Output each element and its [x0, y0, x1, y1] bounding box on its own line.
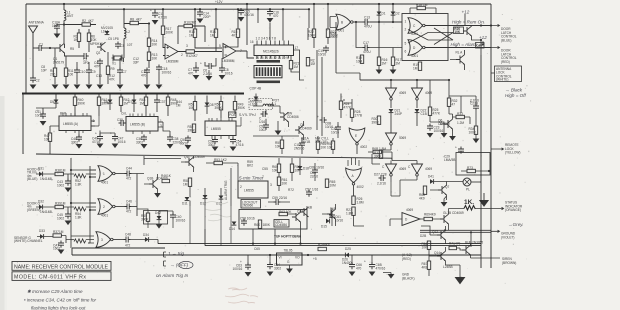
transistor Q11: [185, 157, 194, 167]
svg-text:47: 47: [452, 102, 456, 106]
wire C16 top: [269, 9, 271, 11]
svg-text:Q2: Q2: [96, 51, 100, 55]
wire exit siren: [479, 257, 500, 259]
svg-text:4001: 4001: [411, 54, 418, 58]
capacitor C17A: [144, 68, 150, 75]
transistor Q17: [327, 209, 336, 219]
wire Q7: [430, 182, 447, 201]
svg-text:470: 470: [455, 242, 461, 246]
wire R27 down: [354, 215, 365, 226]
diode D41: [430, 179, 434, 184]
resistor R14A: [147, 38, 150, 46]
svg-text:3302: 3302: [136, 140, 143, 144]
svg-text:6: 6: [405, 50, 407, 54]
extra wire alarm trig riser: [190, 206, 231, 246]
svg-text:C10: C10: [80, 70, 86, 74]
wire C63: [247, 255, 249, 265]
svg-text:1M: 1M: [176, 103, 181, 107]
wire G3 out to pair: [131, 240, 158, 244]
resistor R61: [277, 177, 280, 185]
wire gate E output: [356, 145, 358, 154]
dip switch SW1 body: [254, 66, 282, 78]
svg-text:3: 3: [101, 238, 103, 242]
wire box risers to pair: [205, 229, 301, 246]
capacitor C28: [379, 175, 386, 181]
inductor L3 horizontal: [263, 104, 273, 106]
svg-text:390K: 390K: [215, 106, 223, 110]
wire left border middle section: [22, 94, 24, 155]
svg-text:C5: C5: [121, 44, 125, 48]
ground under C16: [267, 18, 274, 23]
svg-text:C1: C1: [39, 43, 43, 47]
svg-text:1M: 1M: [311, 62, 316, 66]
resistor R38: [55, 172, 63, 175]
resistor R22: [312, 29, 315, 37]
wire U8C: [391, 158, 417, 182]
svg-text:S-V?L 7PnJ: S-V?L 7PnJ: [239, 113, 256, 117]
wire Q17: [322, 204, 336, 226]
wire C64: [269, 255, 271, 265]
svg-text:R18: R18: [416, 3, 422, 7]
svg-text:C13: C13: [364, 16, 370, 20]
wire G1 output: [115, 173, 125, 175]
node y80 a: [390, 79, 392, 81]
svg-text:477K: 477K: [433, 111, 441, 115]
node reg out: [307, 254, 309, 256]
svg-text:D31: D31: [38, 167, 44, 171]
svg-text:472: 472: [125, 244, 131, 248]
wire C41: [36, 108, 56, 114]
diode D11: [185, 197, 190, 201]
resistor R17: [161, 26, 164, 34]
svg-text:D2: D2: [396, 12, 400, 16]
op-amp U1A: [165, 44, 178, 59]
wire R39 to gate2: [63, 207, 96, 214]
node x309 top: [308, 8, 310, 10]
resistor R15: [236, 29, 239, 37]
svg-text:X1: X1: [112, 62, 116, 66]
node y80 b: [416, 79, 418, 81]
node rail junction a: [194, 8, 196, 10]
svg-text:LM358M: LM358M: [166, 60, 179, 64]
wire C7B: [195, 62, 197, 68]
svg-text:10P: 10P: [41, 68, 47, 72]
svg-text:+: +: [317, 115, 319, 119]
IC U3 pin ticks: [66, 113, 95, 133]
resistor R41: [97, 97, 100, 105]
node gate B out: [355, 21, 357, 23]
node x247 top: [246, 3, 248, 5]
wire R37 to gate3: [61, 236, 94, 244]
ground big right: [479, 200, 489, 207]
wire C46 to bus: [132, 206, 137, 208]
svg-text:3: 3: [186, 44, 188, 48]
wire lower box internals: [287, 210, 300, 230]
wire R3 R6 drops: [79, 29, 89, 52]
node violet pair a: [444, 229, 446, 231]
wire upper feeds: [279, 158, 300, 191]
svg-text:R6B: R6B: [372, 147, 378, 151]
svg-text:(VIOLET): (VIOLET): [501, 235, 514, 239]
diode D34: [145, 237, 149, 242]
svg-text:L10A: L10A: [101, 29, 109, 33]
ground under C2: [30, 85, 37, 90]
wire C14: [199, 9, 201, 12]
node pair a: [252, 243, 254, 245]
transistor Q4A wires: [450, 50, 465, 70]
svg-text:1M: 1M: [59, 230, 64, 234]
wire D2: [392, 4, 394, 22]
node pair b: [274, 243, 276, 245]
wire encoder feeds: [258, 9, 283, 40]
diode D13: [219, 196, 224, 200]
capacitor C33: [335, 125, 341, 132]
svg-text:+: +: [37, 109, 39, 113]
resistor R13B: [193, 29, 196, 37]
svg-text:100/16: 100/16: [162, 70, 172, 74]
left edge scan shadow: [0, 96, 5, 310]
wire R28 loop: [344, 99, 352, 122]
resistor R14B: [214, 29, 217, 37]
ground under C23: [427, 133, 434, 138]
svg-text:R33: R33: [457, 112, 463, 116]
wire R34: [449, 96, 476, 139]
wire vertical feed x247: [246, 4, 248, 45]
wire violet pair lower: [420, 231, 491, 233]
wire x372 riser: [372, 154, 380, 164]
svg-text:4002: 4002: [360, 145, 367, 149]
transistor Q16: [300, 207, 309, 217]
svg-text:1K2: 1K2: [221, 158, 227, 162]
wire left border top section: [25, 4, 27, 94]
wire gate-box left drop: [71, 248, 73, 255]
svg-text:C1B: C1B: [421, 112, 427, 116]
svg-text:7: 7: [262, 175, 264, 179]
svg-text:COP 4B: COP 4B: [250, 87, 262, 91]
svg-text:D7: D7: [128, 100, 132, 104]
ground under C66: [349, 272, 356, 277]
capacitor C1: [37, 45, 44, 51]
transistor Q6: [444, 119, 453, 129]
gate A 4002 pointing down: [346, 168, 362, 185]
ground under C6: [206, 76, 213, 81]
wire G2 output: [115, 206, 125, 208]
svg-text:D8: D8: [210, 103, 214, 107]
wire G3 output: [113, 239, 124, 241]
svg-text:100K: 100K: [166, 30, 174, 34]
svg-text:472: 472: [126, 177, 132, 181]
svg-text:10M: 10M: [356, 59, 363, 63]
svg-text:100/16: 100/16: [434, 129, 444, 133]
off circle mark: [179, 261, 193, 268]
wire D33: [37, 236, 53, 238]
svg-text:4001: 4001: [101, 181, 108, 185]
resistor R58: [188, 178, 191, 186]
svg-text:4002: 4002: [357, 185, 364, 189]
ground mid1: [275, 131, 282, 136]
svg-text:LM358M: LM358M: [222, 59, 235, 63]
resistor R60: [277, 164, 280, 172]
svg-text:D33: D33: [39, 229, 45, 233]
capacitor C58: [241, 219, 247, 226]
svg-text:D25: D25: [345, 247, 351, 251]
resistor R28: [350, 109, 353, 117]
node bus taps: [70, 169, 72, 171]
svg-text:10/16: 10/16: [180, 141, 188, 145]
svg-text:47P: 47P: [94, 64, 100, 68]
wire G2 inputs: [90, 203, 96, 210]
svg-text:PL: PL: [466, 188, 470, 192]
diode D26: [345, 253, 349, 258]
svg-text:3P3: 3P3: [83, 61, 89, 65]
svg-text:C37: C37: [160, 100, 166, 104]
resistor R31: [379, 150, 382, 158]
svg-text:100K: 100K: [469, 130, 477, 134]
svg-text:LM555: LM555: [244, 189, 254, 193]
svg-text:D5: D5: [50, 100, 54, 104]
svg-text:C35: C35: [117, 118, 123, 122]
capacitor C36: [141, 135, 147, 142]
ground under Q7: [441, 202, 448, 207]
svg-text:NAME: RECEIVER CONTROL MODULE: NAME: RECEIVER CONTROL MODULE: [14, 264, 109, 270]
wire exit remote lock: [491, 148, 504, 150]
wire gate D output: [425, 47, 491, 49]
capacitor C56: [261, 111, 268, 117]
svg-text:R2: R2: [82, 19, 86, 23]
svg-text:L1: L1: [273, 102, 277, 106]
transistor Q2: [97, 42, 106, 52]
wire signal pair lower: [205, 245, 481, 247]
svg-text:(BLACK): (BLACK): [402, 276, 415, 280]
capacitor C61: [329, 213, 335, 220]
gate G3 4001: [96, 232, 113, 248]
ground row g3: [74, 85, 81, 90]
ground under C63: [245, 272, 252, 277]
svg-text:4K9: 4K9: [430, 213, 436, 217]
svg-text:47/16: 47/16: [92, 140, 100, 144]
cross coupling wire 1: [408, 28, 453, 40]
ground under R34: [473, 139, 480, 144]
svg-text:33P: 33P: [133, 60, 139, 64]
ground under C68: [369, 272, 376, 277]
svg-text:GL1B: GL1B: [443, 211, 451, 215]
capacitor C7B: [193, 66, 199, 73]
IC U5 pin ticks: [212, 118, 229, 139]
svg-text:CD4069: CD4069: [300, 126, 312, 130]
svg-text:L24BB: L24BB: [443, 265, 453, 269]
wire antenna to C1: [33, 47, 39, 49]
resistor R18: [417, 6, 425, 9]
wire middle section bottom rail: [36, 154, 392, 158]
arrow mark: [482, 41, 484, 45]
svg-text:10K: 10K: [44, 137, 51, 141]
wire C47: [100, 133, 115, 137]
wire C44 to bus: [132, 174, 137, 217]
svg-text:C13: C13: [96, 74, 102, 78]
relock cluster box: [144, 211, 168, 225]
wire D31: [36, 173, 55, 175]
resistor R69: [424, 217, 432, 220]
resistor R47: [48, 133, 51, 141]
svg-text:7: 7: [240, 49, 242, 53]
wire D1: [378, 4, 380, 22]
svg-text:→Grey.: →Grey.: [508, 222, 523, 227]
svg-text:on Alarm Trig In: on Alarm Trig In: [156, 273, 189, 278]
ground under C36: [141, 144, 148, 149]
svg-text:• increase C34, C42 on 'off' t: • increase C34, C42 on 'off' time for: [24, 298, 97, 303]
diode D22: [415, 109, 420, 113]
IC U2 bottom pin stubs: [257, 56, 289, 59]
wire L1 from top rail: [63, 4, 65, 44]
wire R25: [429, 80, 431, 122]
resistor R30: [377, 116, 380, 124]
wire R18: [410, 8, 436, 14]
resistor R19A: [360, 55, 363, 63]
wire violet pair upper: [420, 229, 491, 231]
node border crossing a: [480, 24, 482, 26]
ground symbol gnd black: [388, 274, 395, 279]
svg-text:C2: C2: [36, 79, 40, 83]
svg-text:10M: 10M: [330, 183, 337, 187]
node D1 bottom: [378, 21, 380, 23]
ground under C42: [58, 250, 65, 255]
svg-text:3302: 3302: [274, 266, 281, 270]
transistor Q1B: [149, 179, 158, 189]
inductor L2: [124, 28, 126, 38]
diode D31: [39, 172, 43, 177]
wire riser x322: [321, 57, 323, 136]
wire drops group2: [195, 96, 235, 122]
svg-text:4001: 4001: [337, 29, 344, 33]
node border crossing b: [480, 39, 482, 41]
ground under Q6: [449, 136, 456, 141]
svg-text:R63 10K: R63 10K: [279, 210, 292, 214]
dip switch SW1 bottom strip: [257, 81, 281, 84]
svg-text:472: 472: [126, 210, 132, 214]
svg-text:390K: 390K: [238, 106, 246, 110]
resistor R64: [258, 220, 261, 228]
IC U4 LM555 A2 box: [126, 117, 158, 132]
wire R73: [461, 170, 489, 172]
wire big ground: [446, 265, 461, 277]
svg-text:VO: VO: [295, 256, 300, 260]
svg-text:(RED): (RED): [501, 60, 510, 64]
wire C13 to latch box: [370, 21, 402, 23]
svg-text:390K: 390K: [374, 154, 382, 158]
wire C61: [331, 208, 333, 226]
wire exit ground violet: [491, 230, 500, 232]
capacitor C35: [119, 120, 126, 126]
capacitor C11: [152, 11, 158, 18]
ground row g5: [97, 85, 104, 90]
wire R47: [50, 126, 59, 154]
wire mid drops from thick rail: [56, 94, 168, 117]
ground mid-left: [156, 224, 163, 229]
resistor R51: [193, 102, 196, 110]
wire R6B: [368, 152, 392, 160]
wire top link x144: [137, 156, 181, 174]
svg-text:3: 3: [160, 124, 162, 128]
buffer U9 triangle: [402, 213, 420, 226]
svg-text:177B: 177B: [355, 113, 362, 117]
wire thick mid rail: [22, 93, 244, 95]
svg-text:10T: 10T: [127, 43, 133, 47]
wire y136 bus: [253, 135, 299, 137]
transistor Q1: [56, 43, 65, 53]
svg-text:470/16: 470/16: [376, 266, 386, 270]
gate A input stubs: [348, 158, 359, 166]
wire x309 feed: [308, 9, 309, 40]
svg-text:ANTENNA: ANTENNA: [29, 21, 45, 25]
svg-text:C59: C59: [272, 196, 278, 200]
wire R24B: [340, 94, 342, 119]
resistor R68: [423, 186, 426, 194]
wire Q6: [440, 114, 470, 136]
wire C38: [163, 122, 170, 137]
capacitor C66: [349, 262, 355, 269]
big ground bottom right: [455, 277, 466, 284]
resistor R70: [318, 247, 326, 250]
resistor R52A: [192, 124, 195, 132]
capacitor C63: [245, 263, 251, 270]
svg-text:D34: D34: [143, 233, 149, 237]
wire second rail: [80, 8, 309, 10]
svg-text:Q11: Q11: [184, 155, 190, 159]
resistor R37: [53, 234, 61, 237]
svg-text:R8: R8: [130, 18, 134, 22]
diode D5: [54, 100, 59, 104]
left edge smudge lower: [5, 210, 8, 310]
svg-text:C65: C65: [254, 247, 260, 251]
wire gate A output: [353, 185, 355, 196]
node y80 c: [448, 79, 450, 81]
svg-text:C55: C55: [262, 167, 268, 171]
wire 1K to status: [476, 207, 504, 209]
wire C11 top: [154, 9, 156, 13]
lockout sub box: [241, 200, 261, 209]
dip switch SW1 header strip: [257, 60, 281, 63]
gate C 4001: [408, 18, 425, 34]
svg-text:16: 16: [250, 40, 254, 44]
svg-text:D2B: D2B: [420, 234, 426, 238]
svg-text:+12: +12: [462, 10, 470, 15]
svg-text:180K: 180K: [263, 223, 271, 227]
resistor R2: [82, 23, 90, 26]
extra pin ticks 555 boxes: [63, 113, 232, 121]
ground under regulator: [286, 269, 293, 274]
svg-text:5-min Timer: 5-min Timer: [239, 176, 264, 181]
svg-text:470: 470: [356, 266, 362, 270]
ground under C48: [76, 144, 83, 149]
resistor R26: [352, 196, 355, 204]
svg-text:4001: 4001: [101, 214, 108, 218]
ground under C8B: [219, 75, 226, 80]
ground row g2: [63, 85, 70, 90]
wire C23b: [430, 122, 444, 133]
svg-text:BK2: BK2: [247, 163, 253, 167]
svg-text:4.7/16: 4.7/16: [158, 15, 167, 19]
wire exit door latch blue: [491, 24, 500, 26]
resistor R46: [162, 179, 170, 182]
transistor Q3A wires: [465, 14, 481, 40]
svg-text:CD45B6: CD45B6: [275, 223, 287, 227]
ground under C7B: [193, 75, 200, 80]
svg-text:1: 1: [405, 20, 407, 24]
svg-text:1M: 1M: [61, 202, 66, 206]
svg-text:390K: 390K: [188, 128, 196, 132]
diode D15: [326, 219, 330, 224]
resistor R40: [73, 97, 76, 105]
